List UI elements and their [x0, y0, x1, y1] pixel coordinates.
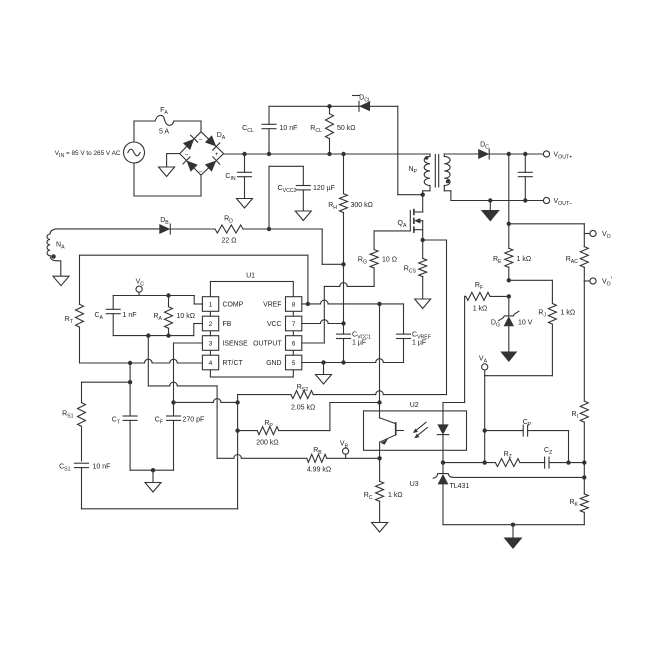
capacitor CVCC2	[269, 166, 335, 229]
capacitor CVREF	[397, 332, 431, 347]
svg-text:VREF: VREF	[263, 301, 281, 308]
svg-text:3: 3	[209, 340, 213, 347]
resistor RT	[65, 255, 84, 363]
resistor RS2	[238, 240, 447, 412]
svg-text:10 kΩ: 10 kΩ	[177, 313, 195, 320]
AC source VIN	[55, 142, 145, 163]
svg-text:200 kΩ: 200 kΩ	[256, 440, 278, 447]
svg-text:ISENSE: ISENSE	[223, 340, 249, 347]
wire TL431 anode	[443, 523, 584, 527]
wire aux line	[57, 227, 346, 267]
terminal VA	[479, 356, 488, 376]
svg-text:7: 7	[292, 321, 296, 328]
resistor RAC	[566, 247, 589, 281]
svg-text:22 Ω: 22 Ω	[222, 238, 237, 245]
resistor RF	[443, 282, 511, 411]
capacitor CVCC1	[337, 324, 372, 363]
opto LED	[437, 411, 448, 465]
wire VREF-opto	[379, 304, 381, 411]
svg-text:4.99 kΩ: 4.99 kΩ	[307, 467, 331, 474]
wire VA node	[483, 376, 553, 465]
capacitor CS1	[59, 463, 110, 509]
ground U1	[316, 363, 332, 385]
ground zener	[500, 352, 517, 363]
resistor RI	[571, 281, 588, 463]
capacitor CF	[155, 400, 205, 470]
resistor RC	[364, 458, 403, 522]
wire gate	[374, 230, 410, 232]
svg-text:300 kΩ: 300 kΩ	[351, 202, 373, 209]
wire VREF row	[302, 300, 404, 334]
svg-text:6: 6	[292, 340, 296, 347]
svg-text:U3: U3	[410, 481, 419, 488]
svg-text:U2: U2	[410, 402, 419, 409]
svg-text:4: 4	[209, 360, 213, 367]
wire RT-VREF	[80, 255, 308, 304]
ground bridge left	[159, 154, 180, 177]
svg-text:COMP: COMP	[223, 301, 244, 308]
winding NA	[47, 229, 65, 259]
terminal VB	[340, 441, 349, 459]
svg-text:10 nF: 10 nF	[93, 464, 111, 471]
svg-text:1 kΩ: 1 kΩ	[561, 310, 576, 317]
wire rectified rail	[224, 152, 430, 156]
shunt regulator U3 TL431	[410, 463, 470, 525]
diode DB	[159, 217, 170, 234]
resistor RD	[215, 216, 243, 245]
wire OUTPUT row	[302, 342, 325, 344]
svg-text:10 V: 10 V	[518, 320, 533, 327]
diode DC	[444, 142, 543, 160]
wire RE-RJ	[509, 280, 553, 303]
wire COMP top	[113, 293, 202, 304]
svg-text:8: 8	[292, 301, 296, 308]
wire COMP down	[148, 336, 217, 459]
svg-text:5 A: 5 A	[159, 129, 169, 136]
terminal VOUT-	[543, 197, 572, 206]
ground CT CF	[130, 468, 173, 492]
resistor RZ	[495, 451, 520, 467]
svg-text:10 Ω: 10 Ω	[382, 257, 397, 264]
capacitor CA	[94, 296, 136, 336]
diode bridge DA	[180, 132, 226, 175]
svg-text:1 kΩ: 1 kΩ	[517, 256, 532, 263]
wire FB bottom	[113, 324, 202, 338]
capacitor CIN	[225, 154, 252, 208]
svg-text:+: +	[215, 151, 219, 158]
svg-text:5: 5	[292, 360, 296, 367]
svg-text:U1: U1	[246, 273, 255, 280]
wire output return	[451, 198, 544, 202]
terminal VO	[584, 230, 610, 239]
svg-text:2.05 kΩ: 2.05 kΩ	[291, 405, 315, 412]
ground output	[481, 201, 500, 222]
resistor RP	[238, 400, 382, 446]
wire GND row	[302, 341, 404, 365]
capacitor CP	[485, 419, 569, 463]
svg-text:270 pF: 270 pF	[183, 417, 205, 424]
terminal VO'	[584, 277, 612, 288]
transformer core	[435, 155, 438, 188]
svg-text:120 µF: 120 µF	[313, 185, 335, 192]
svg-text:1 kΩ: 1 kΩ	[473, 306, 488, 313]
svg-text:GND: GND	[266, 360, 281, 367]
wire RS1 tap	[82, 363, 133, 384]
MOSFET QA	[398, 195, 425, 243]
optocoupler U2	[364, 402, 467, 450]
fuse FA	[155, 107, 174, 136]
opto light arrows	[413, 422, 428, 438]
svg-text:1 µF: 1 µF	[412, 340, 426, 347]
zener DG	[491, 296, 533, 351]
svg-text:1: 1	[209, 301, 213, 308]
opto transistor	[377, 411, 403, 461]
resistor RH	[328, 154, 373, 324]
resistor RE	[493, 224, 531, 283]
svg-text:OUTPUT: OUTPUT	[253, 340, 282, 347]
wire ISENSE	[174, 343, 203, 402]
resistor RG	[324, 231, 397, 343]
op-amp U1 PWM controller	[202, 273, 301, 378]
capacitor COUT	[518, 154, 532, 201]
svg-text:1 µF: 1 µF	[352, 340, 366, 347]
wire RTCT line	[80, 359, 203, 365]
wire TL431 ref	[454, 475, 587, 479]
resistor RCS	[404, 240, 431, 309]
capacitor CZ	[520, 447, 587, 468]
svg-text:FB: FB	[223, 321, 232, 328]
wire sense	[507, 154, 585, 247]
ground secondary main	[504, 525, 523, 549]
resistor RCL	[310, 106, 355, 154]
svg-text:2: 2	[209, 321, 213, 328]
svg-text:1 nF: 1 nF	[123, 312, 137, 319]
wire VCC row	[302, 320, 346, 326]
capacitor CT	[112, 382, 137, 470]
diode DCL	[353, 95, 371, 112]
wire AC loop	[134, 121, 201, 196]
terminal VOUT+	[543, 151, 572, 160]
resistor RJ	[538, 304, 575, 376]
svg-text:10 nF: 10 nF	[280, 125, 298, 132]
svg-text:TL431: TL431	[450, 483, 470, 490]
wire clamp top	[269, 104, 425, 197]
svg-text:RT/CT: RT/CT	[223, 360, 244, 367]
wire ISENSE row	[174, 399, 240, 405]
transformer primary NP	[408, 154, 430, 195]
resistor RB	[217, 447, 380, 474]
resistor RS1	[62, 382, 85, 461]
capacitor CCL	[242, 106, 297, 154]
svg-text:1 kΩ: 1 kΩ	[388, 492, 403, 499]
wire fb row	[443, 462, 495, 464]
ground NA	[50, 256, 69, 286]
ground RC	[372, 523, 388, 533]
terminal VC	[136, 279, 145, 296]
transformer secondary	[444, 154, 451, 201]
resistor RK	[569, 463, 588, 525]
svg-text:50 kΩ: 50 kΩ	[337, 125, 355, 132]
wire slope node	[82, 402, 240, 508]
resistor RA	[153, 296, 195, 338]
svg-text:VCC: VCC	[267, 321, 282, 328]
